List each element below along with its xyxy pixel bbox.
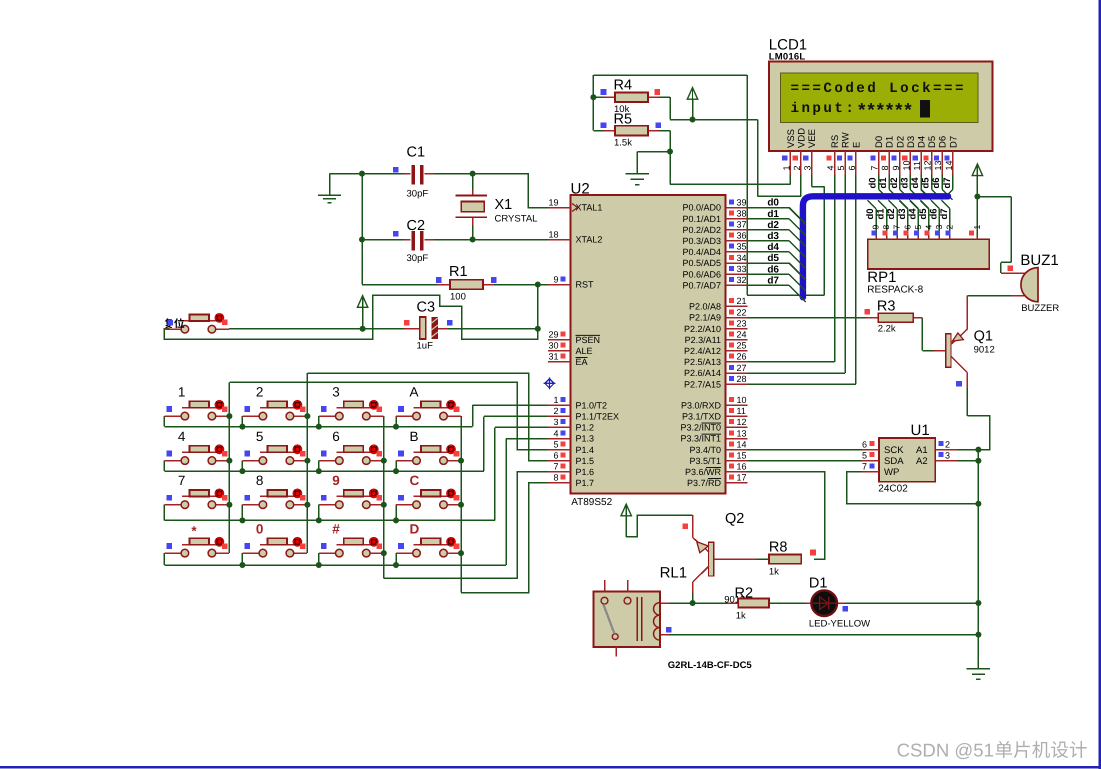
wire SCK net P3.4 to U1 <box>747 449 862 451</box>
svg-text:35: 35 <box>737 242 747 252</box>
button 8 state squares <box>245 495 306 501</box>
svg-text:D3: D3 <box>906 136 917 148</box>
svg-text:5: 5 <box>836 165 846 170</box>
wire net d1 from P0.1 <box>747 218 789 220</box>
Q2 state square <box>683 523 689 529</box>
svg-text:P3.7/RD: P3.7/RD <box>687 478 722 488</box>
U2 pin 26 <box>726 352 748 362</box>
RP1 pin 9 <box>871 225 881 240</box>
svg-text:P1.0/T2: P1.0/T2 <box>576 400 608 410</box>
LCD1 display LM016L body <box>769 62 993 151</box>
svg-text:39: 39 <box>737 197 747 207</box>
wire bus to RP1 pin 6 (d3) <box>899 200 908 239</box>
button # state squares <box>321 543 382 549</box>
ground symbol top-left <box>318 174 341 203</box>
svg-text:30pF: 30pF <box>407 189 429 200</box>
svg-text:R1: R1 <box>449 264 468 280</box>
button 0 cap <box>267 538 287 545</box>
svg-text:P1.2: P1.2 <box>576 423 595 433</box>
wire keypad row 3 bus <box>164 427 548 520</box>
svg-text:P3.4/T0: P3.4/T0 <box>689 445 721 455</box>
svg-text:16: 16 <box>737 462 747 472</box>
button 1 actuator <box>215 400 225 410</box>
U2 pin 34 <box>726 253 748 263</box>
wire net d3 from P0.3 <box>747 240 789 242</box>
svg-text:6: 6 <box>862 440 867 450</box>
button D state squares <box>398 543 459 549</box>
wire LCD D2 to bus <box>900 175 910 200</box>
button * leads <box>164 545 229 553</box>
svg-text:11: 11 <box>912 161 922 170</box>
svg-text:VDD: VDD <box>796 128 807 148</box>
svg-text:SCK: SCK <box>884 445 904 456</box>
U2 pin 24 <box>726 330 748 340</box>
LCD1 pin 9 (D2) <box>891 136 907 175</box>
svg-text:C2: C2 <box>407 218 426 234</box>
U2 pin 16 <box>726 462 748 472</box>
svg-text:P0.2/AD2: P0.2/AD2 <box>682 225 721 235</box>
button 5 cap <box>267 446 287 453</box>
svg-text:30pF: 30pF <box>407 253 429 264</box>
svg-text:24: 24 <box>737 330 747 340</box>
button actuator <box>215 313 225 323</box>
svg-text:U2: U2 <box>571 181 590 198</box>
wire keypad column 3 bus to P1.6 <box>384 416 548 578</box>
svg-text:26: 26 <box>737 352 747 362</box>
wire U1 A1/A2/WP ground rail <box>957 450 978 635</box>
svg-text:d6: d6 <box>931 177 942 188</box>
svg-text:AT89S52: AT89S52 <box>571 497 612 508</box>
resistor R8 <box>769 555 801 564</box>
button 2 cap <box>267 401 287 408</box>
wire LCD D3 to bus <box>910 175 920 200</box>
svg-text:d5: d5 <box>918 208 929 220</box>
U2 pin 5 (P1.4) <box>548 439 570 449</box>
U2 pin 36 <box>726 231 748 241</box>
svg-text:C1: C1 <box>407 145 426 161</box>
wire GND net top-left <box>330 174 405 285</box>
svg-text:D1: D1 <box>885 136 896 148</box>
U2 pin 39 <box>726 197 748 207</box>
svg-text:D1: D1 <box>809 576 828 592</box>
button * cap <box>189 538 209 545</box>
svg-text:d7: d7 <box>767 275 779 286</box>
svg-text:14: 14 <box>944 160 954 170</box>
resistor R2 <box>727 598 769 607</box>
svg-text:1: 1 <box>972 225 982 230</box>
U2 pin 2 (P1.1/T2EX) <box>548 406 570 416</box>
RP1 pin 5 <box>913 225 923 240</box>
svg-text:P1.4: P1.4 <box>576 445 595 455</box>
wire bus to RP1 pin 2 (d7) <box>941 200 950 239</box>
wire bus to RP1 pin 3 (d6) <box>931 200 940 239</box>
wire XTAL1 net <box>434 174 548 208</box>
svg-text:4: 4 <box>553 428 558 438</box>
svg-text:P0.5/AD5: P0.5/AD5 <box>682 258 721 268</box>
wire C3 to RST node <box>448 328 538 330</box>
button C state squares <box>398 495 459 501</box>
U2 pin 8 (P1.7) <box>548 473 570 483</box>
button # actuator <box>369 537 379 547</box>
wire net d6 from P0.6 <box>747 273 789 275</box>
button # contacts <box>336 549 371 557</box>
svg-text:XTAL2: XTAL2 <box>576 235 603 245</box>
U2 pin 28 <box>726 374 748 384</box>
origin marker <box>544 377 556 389</box>
power +5V arrow at reset <box>357 296 367 329</box>
wire Q2 base to R8 <box>756 558 769 560</box>
svg-text:A: A <box>410 385 419 400</box>
resistor R4 <box>604 92 659 102</box>
wire LCD D1 to bus <box>889 175 899 200</box>
LCD1 pin 5 (RW) <box>836 132 852 174</box>
capacitor C3 (1uF polarized) <box>404 317 448 339</box>
button A cap <box>421 401 441 408</box>
svg-text:P2.7/A15: P2.7/A15 <box>684 379 721 389</box>
svg-text:P0.6/AD6: P0.6/AD6 <box>682 269 721 279</box>
U2 pin 3 (P1.2) <box>548 417 570 427</box>
button 2 contacts <box>259 412 294 420</box>
svg-text:D5: D5 <box>927 136 938 148</box>
U2 pin 13 <box>726 428 748 438</box>
sheet border bottom <box>0 766 1101 769</box>
svg-text:P1.7: P1.7 <box>576 478 595 488</box>
button # cap <box>344 538 364 545</box>
button contacts <box>181 325 216 333</box>
U2 pin 21 <box>726 296 748 306</box>
svg-text:23: 23 <box>737 318 747 328</box>
button 5 leads <box>242 452 307 460</box>
wire bus to RP1 pin 4 (d5) <box>920 200 929 239</box>
U2 pin 18 (XTAL2) <box>548 229 570 239</box>
Q1 state square <box>956 381 962 387</box>
C2 state square <box>393 231 399 237</box>
RL1 state square <box>666 627 672 633</box>
U1 pin 3 A2 <box>935 451 957 461</box>
RP1 pin 7 <box>892 225 902 240</box>
wire R5 to GND and LCD VSS <box>637 131 790 185</box>
svg-text:d2: d2 <box>767 220 779 231</box>
svg-text:Q2: Q2 <box>725 511 744 527</box>
svg-text:2: 2 <box>944 225 954 230</box>
svg-text:CRYSTAL: CRYSTAL <box>495 214 538 225</box>
svg-text:===Coded Lock===: ===Coded Lock=== <box>791 81 966 97</box>
svg-text:RP1: RP1 <box>867 269 896 286</box>
svg-text:6: 6 <box>847 165 857 170</box>
svg-text:d1: d1 <box>878 177 889 189</box>
wire R3 to Q1 base <box>913 318 945 351</box>
wire keypad column 1 bus to P1.4 <box>229 382 548 553</box>
button 9 actuator <box>369 489 379 499</box>
svg-text:D6: D6 <box>938 136 949 148</box>
wire VCC net top (R4 to LCD VDD) <box>659 97 801 196</box>
svg-text:D4: D4 <box>917 136 928 148</box>
svg-text:34: 34 <box>737 253 747 263</box>
svg-text:d0: d0 <box>865 208 876 219</box>
svg-text:18: 18 <box>548 229 558 239</box>
button D leads <box>396 545 461 553</box>
svg-text:R8: R8 <box>769 540 788 556</box>
button 1 leads <box>164 408 229 416</box>
wire LCD D4 to bus <box>921 175 931 200</box>
button 3 leads <box>319 408 384 416</box>
R1 state squares <box>436 277 497 283</box>
wire net d4 from P0.4 <box>747 251 789 253</box>
button C actuator <box>446 489 456 499</box>
U2 pin 14 <box>726 439 748 449</box>
svg-text:7: 7 <box>178 473 186 488</box>
svg-text:B: B <box>410 429 419 444</box>
U2 pin 19 (XTAL1) <box>548 197 570 207</box>
wire bus to RP1 pin 8 (d1) <box>878 200 887 239</box>
svg-text:d2: d2 <box>886 208 897 219</box>
relay RL1 body <box>593 592 660 647</box>
button 4 contacts <box>181 457 216 465</box>
button 6 cap <box>344 446 364 453</box>
button C cap <box>421 490 441 497</box>
button 6 actuator <box>369 444 379 454</box>
wire buzzer to Q1 emitter <box>967 295 1026 297</box>
svg-text:2.2k: 2.2k <box>878 323 896 334</box>
button B cap <box>421 446 441 453</box>
svg-text:D: D <box>410 522 420 537</box>
R3 state square <box>864 309 870 315</box>
R5 state squares <box>601 123 661 129</box>
svg-text:9: 9 <box>553 274 558 284</box>
BUZ1 state square <box>1008 266 1014 272</box>
svg-text:d5: d5 <box>767 253 779 264</box>
U2 pin 38 <box>726 208 748 218</box>
svg-text:21: 21 <box>737 296 747 306</box>
wire LCD D7 to bus <box>946 175 953 197</box>
svg-text:P2.5/A13: P2.5/A13 <box>684 357 721 367</box>
ground symbol bottom-right <box>967 635 990 680</box>
button 2 state squares <box>245 406 306 412</box>
svg-text:d7: d7 <box>942 177 953 188</box>
svg-text:#: # <box>332 522 340 537</box>
LCD1 pin 12 (D5) <box>923 136 939 175</box>
power +5V arrow near R4 <box>687 88 697 120</box>
svg-text:9: 9 <box>891 165 901 170</box>
svg-text:8: 8 <box>881 225 891 230</box>
svg-text:25: 25 <box>737 341 747 351</box>
svg-text:27: 27 <box>737 363 747 373</box>
wire LCD D5 to bus <box>932 175 942 200</box>
RP1 pin 2 <box>944 225 954 240</box>
U2 pin 33 <box>726 264 748 274</box>
button 7 actuator <box>215 489 225 499</box>
svg-text:d4: d4 <box>767 242 779 253</box>
svg-text:E: E <box>851 142 862 148</box>
svg-text:11: 11 <box>737 406 746 416</box>
button C leads <box>396 496 461 504</box>
wire XTAL2 net <box>434 225 548 240</box>
svg-text:P0.7/AD7: P0.7/AD7 <box>682 280 721 290</box>
svg-text:19: 19 <box>548 197 558 207</box>
RP1 pin 4 <box>923 225 933 240</box>
svg-text:2: 2 <box>945 440 950 450</box>
svg-text:5: 5 <box>256 429 264 444</box>
U2 pin 22 <box>726 307 748 317</box>
button * state squares <box>167 543 228 549</box>
ground symbol mid (near R5) <box>626 152 649 185</box>
wire reset button left to RST node (Z path) <box>164 295 537 339</box>
wire relay coil bottom to ground rail <box>660 634 978 636</box>
svg-text:6: 6 <box>553 451 558 461</box>
buzzer BUZ1 <box>1021 268 1038 302</box>
svg-text:R4: R4 <box>614 78 633 94</box>
button 8 actuator <box>293 489 303 499</box>
button 1 state squares <box>167 406 228 412</box>
U2 pin 9 (RST) <box>548 274 570 284</box>
RP1 pin 3 <box>934 225 944 240</box>
LCD1 pin 2 (VDD) <box>792 128 808 175</box>
button D contacts <box>413 549 448 557</box>
svg-text:7: 7 <box>870 165 880 170</box>
wire net d2 from P0.2 <box>747 229 789 231</box>
svg-text:BUZZER: BUZZER <box>1021 303 1059 314</box>
svg-text:R5: R5 <box>614 112 633 128</box>
svg-text:9: 9 <box>332 473 340 488</box>
button 7 state squares <box>167 495 228 501</box>
wire LCD D0 to bus <box>879 175 889 200</box>
svg-text:VEE: VEE <box>807 129 818 148</box>
svg-text:36: 36 <box>737 231 747 241</box>
wire bus to RP1 pin 7 (d2) <box>889 200 898 239</box>
wire U1 WP to rail <box>847 472 979 504</box>
U2 pin 27 <box>726 363 748 373</box>
svg-text:BUZ1: BUZ1 <box>1020 252 1058 269</box>
button 6 contacts <box>336 457 371 465</box>
svg-text:7: 7 <box>892 225 902 230</box>
svg-text:d5: d5 <box>921 177 932 189</box>
svg-text:U1: U1 <box>911 422 930 439</box>
svg-text:ALE: ALE <box>576 346 593 356</box>
wire net d0 from P0.0 <box>747 207 789 209</box>
LCD1 pin 8 (D1) <box>880 136 896 175</box>
svg-text:14: 14 <box>737 439 747 449</box>
wire P3.6 to R8 <box>747 472 824 559</box>
button A contacts <box>413 412 448 420</box>
C3 state squares <box>404 320 453 326</box>
U2 pin 15 <box>726 451 748 461</box>
button 9 leads <box>319 496 384 504</box>
svg-text:2: 2 <box>256 385 264 400</box>
button 3 state squares <box>321 406 382 412</box>
eeprom U1 24C02 body <box>879 438 935 482</box>
svg-text:1: 1 <box>781 165 791 170</box>
svg-text:RST: RST <box>576 280 595 290</box>
LCD1 pin 14 (D7) <box>944 136 960 175</box>
svg-text:d3: d3 <box>899 177 910 188</box>
wire net d7 from P0.7 <box>747 284 789 286</box>
svg-text:RS: RS <box>830 135 841 148</box>
svg-text:P3.1/TXD: P3.1/TXD <box>682 412 722 422</box>
svg-text:3: 3 <box>553 417 558 427</box>
svg-text:32: 32 <box>737 275 747 285</box>
svg-text:13: 13 <box>737 428 747 438</box>
svg-text:6: 6 <box>332 429 340 444</box>
svg-text:P0.3/AD3: P0.3/AD3 <box>682 236 721 246</box>
button 7 contacts <box>181 501 216 509</box>
button 6 leads <box>319 452 384 460</box>
svg-text:6: 6 <box>902 225 912 230</box>
LCD1 pin 6 (E) <box>847 142 863 175</box>
svg-text:EA: EA <box>576 357 588 367</box>
svg-text:RW: RW <box>841 132 852 148</box>
capacitor C1 <box>404 165 434 185</box>
LCD1 pin 13 (D6) <box>933 136 949 175</box>
svg-text:R2: R2 <box>735 585 754 601</box>
svg-text:P3.3/INT1: P3.3/INT1 <box>680 434 721 444</box>
wire keypad row 1 bus <box>164 405 548 426</box>
bus entry diagonals from P0 wires <box>789 208 806 303</box>
svg-text:LED-YELLOW: LED-YELLOW <box>809 619 870 630</box>
svg-text:*: * <box>191 524 197 539</box>
RP1 pin 8 <box>881 225 891 240</box>
sheet border right <box>1099 0 1101 769</box>
C1 state square <box>393 167 399 173</box>
svg-text:D7: D7 <box>948 136 959 148</box>
RL1 contacts and coil <box>601 597 660 641</box>
U2 pin 31 (EA) <box>548 352 570 362</box>
LCD1 pin 3 (VEE) <box>803 129 819 175</box>
U2 pin 6 (P1.5) <box>548 451 570 461</box>
svg-text:WP: WP <box>884 467 899 478</box>
button 9 contacts <box>336 501 371 509</box>
button 9 cap <box>344 490 364 497</box>
button 5 actuator <box>293 444 303 454</box>
svg-text:X1: X1 <box>495 197 513 213</box>
svg-text:5: 5 <box>553 439 558 449</box>
resistor pack RP1 RESPACK-8 body <box>868 239 989 269</box>
resistor R5 <box>604 126 659 136</box>
button * contacts <box>181 549 216 557</box>
wire keypad column 2 bus to P1.5 <box>307 373 548 553</box>
svg-text:C: C <box>410 473 420 488</box>
wire RP1 pin1 to VCC and buzzer <box>977 197 1026 274</box>
svg-text:d7: d7 <box>939 208 950 219</box>
button 0 state squares <box>245 543 306 549</box>
U2 pin 32 <box>726 275 748 285</box>
svg-text:28: 28 <box>737 374 747 384</box>
transistor Q2 9012 PNP <box>693 515 757 593</box>
button A actuator <box>446 400 456 410</box>
button 4 leads <box>164 452 229 460</box>
button 4 actuator <box>215 444 225 454</box>
svg-text:8: 8 <box>256 473 264 488</box>
svg-text:R3: R3 <box>877 299 896 315</box>
svg-text:3: 3 <box>934 225 944 230</box>
svg-text:7: 7 <box>862 462 867 472</box>
svg-text:P2.1/A9: P2.1/A9 <box>689 313 721 323</box>
wire keypad column 4 bus to P1.7 <box>461 416 548 592</box>
svg-text:1: 1 <box>553 395 558 405</box>
svg-text:d0: d0 <box>868 177 879 188</box>
LCD1 pin 7 (D0) <box>870 136 886 175</box>
svg-text:d2: d2 <box>889 177 900 188</box>
wire bus to RP1 pin 5 (d4) <box>910 200 919 239</box>
wire RST net <box>362 285 548 329</box>
svg-text:P2.3/A11: P2.3/A11 <box>685 335 721 345</box>
U2 pin 1 (P1.0/T2) <box>548 395 570 405</box>
svg-text:3: 3 <box>803 165 813 170</box>
svg-text:P3.5/T1: P3.5/T1 <box>689 456 721 466</box>
LCD1 pin 10 (D3) <box>901 136 917 175</box>
svg-text:P3.0/RXD: P3.0/RXD <box>681 400 722 410</box>
svg-text:9: 9 <box>871 225 881 230</box>
R8 state square <box>810 550 816 556</box>
